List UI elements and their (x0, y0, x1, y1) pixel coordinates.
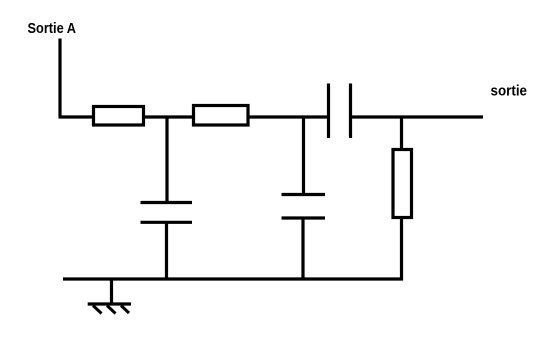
ground stem (110, 279, 113, 305)
svg-text:sortie: sortie (491, 83, 528, 100)
resistor R3 (vertical) (393, 150, 412, 218)
capacitor C1 bottom plate (141, 221, 193, 224)
ground bar (88, 302, 131, 305)
ground hatch 1 (93, 306, 102, 314)
wire R2 to C3 (248, 115, 329, 118)
wire junction drop to C2 (302, 116, 305, 195)
ground hatch 3 (121, 306, 129, 314)
wire input vertical from Sortie A (58, 39, 61, 118)
wire ground bus (bottom) (63, 277, 403, 280)
wire junction drop to R3 (400, 116, 403, 150)
capacitor C3 right plate (349, 84, 352, 139)
capacitor C2 top plate (282, 193, 326, 196)
capacitor C1 top plate (141, 201, 193, 204)
wire R1 to R2 (145, 115, 194, 118)
wire C1 to ground bus (165, 222, 168, 279)
wire C2 to ground bus (301, 218, 304, 279)
ground hatch 2 (107, 306, 116, 314)
capacitor C3 left plate (327, 84, 330, 139)
wire C3 to output (351, 115, 484, 118)
wire top segment to R1 (59, 115, 95, 118)
resistor R1 (94, 107, 144, 126)
wire R3 to ground bus (400, 218, 403, 281)
wire junction drop to C1 (165, 116, 168, 203)
resistor R2 (194, 106, 249, 126)
capacitor C2 bottom plate (282, 216, 326, 219)
svg-text:Sortie A: Sortie A (28, 20, 77, 37)
